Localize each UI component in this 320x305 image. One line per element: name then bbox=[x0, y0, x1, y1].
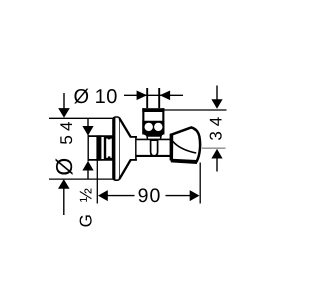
flange cone bbox=[119, 118, 130, 179]
dim Ø54 extension bottom bbox=[49, 178, 113, 180]
svg-text:10: 10 bbox=[95, 86, 118, 108]
dim Ø54 extension top bbox=[49, 117, 115, 119]
top outlet pipe (Ø10 tails) bbox=[147, 88, 159, 110]
dim 90 line with arrows bbox=[98, 190, 200, 201]
svg-text:34: 34 bbox=[206, 112, 225, 141]
dim 34 extension top bbox=[165, 109, 227, 111]
dim Ø10 line bbox=[124, 91, 183, 101]
stem slot (keyhole) bbox=[151, 140, 158, 156]
bonnet collar under nut bbox=[147, 136, 161, 140]
wall pipe G1/2 bbox=[88, 135, 114, 161]
compression nut (knurled) bbox=[142, 108, 164, 136]
dim 90 extension right bbox=[199, 163, 201, 204]
dim 34 line with arrows bbox=[211, 86, 222, 172]
svg-text:90: 90 bbox=[138, 185, 162, 207]
dim Ø54 line with arrows bbox=[58, 93, 70, 215]
dim 90 extension left bbox=[96, 160, 98, 204]
svg-text:G ½: G ½ bbox=[76, 184, 95, 227]
valve body bbox=[136, 139, 171, 156]
dim Ø10 label bbox=[74, 86, 118, 108]
svg-text:Ø: Ø bbox=[74, 86, 90, 108]
neck cylinder bbox=[130, 136, 137, 160]
dim 34 extension bottom (centerline, gray) bbox=[202, 147, 226, 149]
stem collar plate bbox=[170, 134, 173, 161]
wall flange disc bbox=[113, 117, 120, 180]
handle cone bbox=[171, 127, 200, 162]
dim G1/2 line with arrows bbox=[82, 119, 93, 180]
